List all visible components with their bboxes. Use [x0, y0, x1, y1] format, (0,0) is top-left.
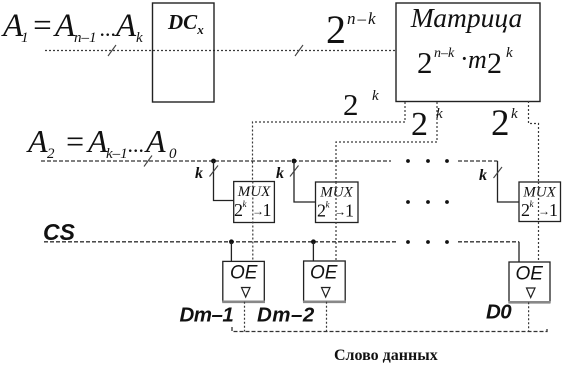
svg-text:Dm–1: Dm–1 [180, 304, 234, 327]
memory matrix block [396, 2, 540, 102]
svg-text:2k→1: 2k→1 [521, 199, 558, 220]
svg-text:2n–k: 2n–k [326, 7, 378, 52]
bus width tick MUX2 select [290, 166, 299, 177]
svg-text:k: k [276, 165, 284, 182]
junction CS to OE1 [229, 239, 234, 244]
wire data word bus [232, 327, 547, 332]
buffer OE2 [303, 261, 346, 302]
wire OE3 output [528, 302, 530, 331]
wire CS to OE1 [230, 242, 232, 262]
svg-text:A1=An–1...Ak: A1=An–1...Ak [1, 8, 143, 46]
svg-text:2n–k·m2k: 2n–k·m2k [417, 44, 513, 80]
wire MUX3 select [498, 161, 520, 202]
junction on A2 bus for MUX1 [211, 159, 216, 164]
svg-text:CS: CS [43, 219, 76, 245]
junction on A2 bus for MUX2 [292, 159, 297, 164]
bus width tick on A1 bus [108, 45, 116, 56]
wire MUX1 data out to OE1 [252, 182, 254, 262]
wire bus2 matrix to MUX2 [336, 102, 437, 182]
wire OE1 output [244, 302, 246, 332]
svg-text:Dm–2: Dm–2 [257, 304, 315, 327]
buffer OE1 [222, 261, 265, 301]
wire CS line right segment [458, 241, 519, 243]
wire CS to OE2 [312, 242, 314, 261]
wire MUX2 select [294, 161, 316, 202]
wire CS line [44, 241, 397, 243]
bus width tick MUX1 select [210, 166, 219, 177]
ellipsis row on A2 bus [406, 159, 449, 163]
decoder DC [153, 3, 215, 102]
bus width tick on A1 bus at matrix [295, 45, 303, 56]
wire A2 bus right segment [458, 160, 498, 162]
svg-text:OE: OE [230, 263, 258, 284]
wire bus3 matrix to MUX3 [529, 101, 539, 184]
mux U2 [316, 182, 359, 223]
svg-text:k: k [479, 167, 487, 184]
junction CS to OE2 [311, 239, 316, 244]
svg-text:MUX: MUX [522, 185, 556, 201]
wire A1 address bus [45, 50, 396, 52]
svg-text:A2=Ak–1...A0: A2=Ak–1...A0 [26, 123, 177, 162]
wire A2 address bus [41, 160, 391, 162]
wire OE2 output [326, 302, 328, 332]
svg-text:OE: OE [310, 263, 338, 284]
svg-text:Матрица: Матрица [410, 2, 522, 33]
wire MUX1 select [214, 161, 234, 201]
bus width tick on A2 bus [144, 156, 152, 167]
svg-text:MUX: MUX [237, 184, 271, 200]
svg-text:2k: 2k [411, 106, 443, 143]
ellipsis row mid [406, 200, 449, 204]
wire bus1 matrix to MUX1 [253, 102, 406, 182]
svg-text:OE: OE [516, 264, 544, 285]
svg-text:2k: 2k [491, 103, 518, 144]
svg-text:Слово данных: Слово данных [334, 347, 438, 364]
buffer OE3 [508, 262, 550, 302]
mux U1 [234, 182, 275, 223]
wire MUX3 data out to OE3 [538, 182, 540, 262]
svg-text:DCx: DCx [167, 10, 204, 37]
svg-text:2k: 2k [343, 87, 379, 122]
svg-text:D0: D0 [486, 301, 512, 324]
wire MUX2 data out to OE2 [335, 182, 337, 261]
svg-text:k: k [195, 165, 203, 182]
bus width tick MUX3 select [494, 167, 503, 178]
ellipsis row on CS line [406, 240, 449, 244]
mux U3 [519, 182, 561, 222]
